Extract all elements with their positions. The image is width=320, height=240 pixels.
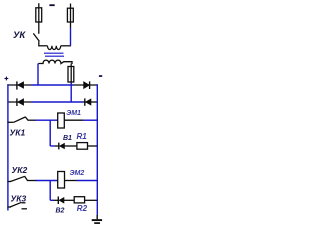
fuse F2 [67,4,73,29]
wire coil EM2 left lead (blue) [36,180,58,182]
wire fuse F2 to primary (blue drop) [70,28,72,46]
diode V2 upper-right [84,81,90,89]
diode V3 lower-left [17,98,24,106]
contact UK2 [7,176,36,181]
upper rail black left [7,84,31,86]
wire secondary left lead [37,64,39,86]
fuse F3 [68,64,74,84]
lower rail blue middle [31,101,83,103]
ground [92,215,102,223]
wire junction drop (blue) [49,120,51,146]
right bus [96,84,98,215]
wire diode B1 to R1 [65,145,77,147]
plus label [5,77,9,81]
diode B1 [59,143,65,150]
svg-text:УК: УК [13,30,26,41]
svg-text:УК2: УК2 [12,165,28,175]
transformer core [44,52,64,54]
diode V1 upper-left [17,81,24,89]
upper rail black right [74,84,98,86]
svg-text:В2: В2 [56,208,65,215]
relay coil EM1 [58,113,65,128]
lower rail black right [83,101,97,103]
wire coil EM2 right lead [65,180,78,182]
minus label [99,75,102,77]
upper rail blue middle [31,84,74,86]
wire coil EM1 right lead [64,119,83,121]
transformer T1 secondary winding [38,60,72,64]
wire R2 to right bus [85,199,98,201]
contact UK3 dash [22,208,28,210]
wire primary left [39,45,48,47]
svg-text:ЭМ1: ЭМ1 [66,110,81,117]
wire transformer right to lower rail [70,85,72,102]
svg-text:R2: R2 [77,204,88,213]
AC supply dash [49,4,54,6]
svg-text:R1: R1 [77,132,88,141]
wire junction drop 2 (blue) [49,180,51,200]
contact UK3 [7,202,25,207]
wire primary right [61,45,71,47]
svg-text:УК3: УК3 [11,194,27,204]
resistor R1 [77,143,88,150]
diode B2 [58,197,64,205]
switch UK [33,33,39,46]
svg-text:В1: В1 [63,135,72,142]
diode V4 lower-right [85,98,91,105]
contact UK1 [7,117,36,122]
lower rail black left [7,101,31,103]
wire diode B2 to R2 [64,199,74,201]
resistor R2 [74,197,84,203]
wire coil EM1 left lead (blue) [35,119,58,121]
left bus [7,84,9,210]
fuse F1 [36,3,42,34]
svg-text:УК1: УК1 [10,127,26,137]
wire R1 to right bus [88,145,98,147]
relay coil EM2 [58,172,65,189]
wire fuse F3 to upper rail [70,83,72,86]
wire B2 row left [50,199,53,201]
transformer T1 primary winding [48,46,61,50]
svg-text:ЭМ2: ЭМ2 [70,170,85,177]
wire B1 row left (blue) [50,145,55,147]
